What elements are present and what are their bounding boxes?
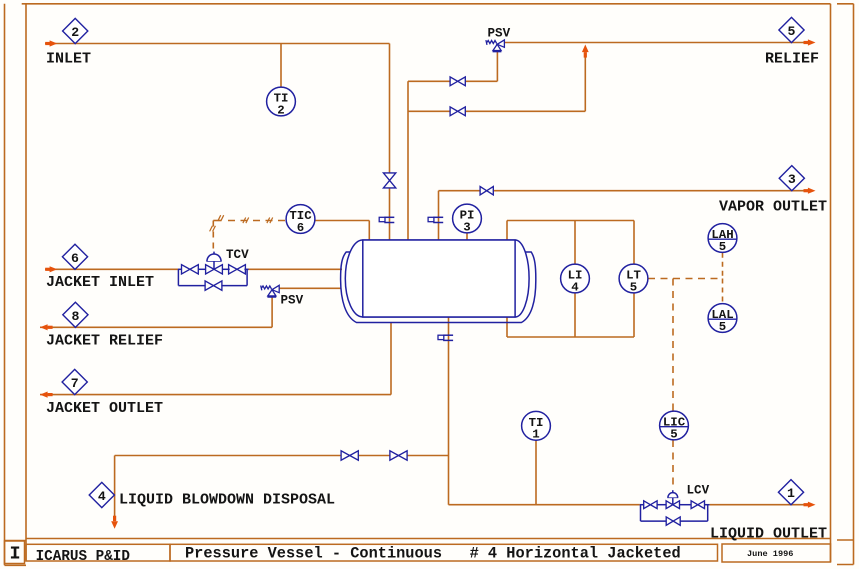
label JACKET RELIEF [46,333,163,350]
instrument LI-4 [561,264,590,294]
label RELIEF [765,51,819,68]
pipe JACKET OUTLET [40,323,391,395]
svg-text:3: 3 [788,172,796,187]
svg-text:JACKET RELIEF: JACKET RELIEF [46,333,163,350]
vessel V-1 horizontal jacketed [345,240,529,317]
svg-text:June 1996: June 1996 [747,549,793,559]
svg-text:7: 7 [71,376,79,391]
relief valve PSV jacket [261,285,280,297]
pipe JACKET INLET [45,268,342,270]
control valve LCV [666,490,679,508]
valve station TCV piping [178,269,249,285]
vessel jacket shell [341,252,536,323]
signal LT-5 to LIC-5 [648,279,723,412]
svg-text:3: 3 [463,220,470,234]
svg-text:5: 5 [719,240,726,254]
pipe INLET header [45,44,390,241]
wire TIC-6 process tap [315,221,369,241]
instrument LAH-5 [708,224,737,254]
nozzle N2 vapor [428,217,443,222]
svg-text:5: 5 [670,427,677,441]
svg-text:5: 5 [788,24,796,39]
svg-text:ICARUS P&ID: ICARUS P&ID [36,549,131,565]
valve LCV upstream block [644,501,657,509]
valve vapor outlet block [480,187,493,195]
node stream 5 [779,17,804,42]
relief valve PSV top [486,40,505,52]
svg-text:INLET: INLET [46,51,91,68]
instrument LT-5 [619,264,648,294]
label LIQUID BLOWDOWN DISPOSAL [119,492,335,509]
instrument TIC-6 [286,205,315,235]
svg-text:6: 6 [297,221,304,235]
pipe LIQUID BLOWDOWN [115,456,449,522]
svg-text:JACKET INLET: JACKET INLET [46,274,154,291]
junction relief tie-in arrow [582,45,589,58]
instrument TI-2 [267,87,296,117]
signal LAH-5 stub [722,253,724,279]
pipe LIQUID OUTLET [449,504,806,506]
valve LCV bypass [666,517,680,525]
valve relief lower block [450,107,465,116]
wire PI-3 tap [466,233,468,241]
node stream 2 [63,18,88,43]
wire LI-4 taps [574,221,576,338]
pipe jacket PSV outlet [279,287,341,289]
label LIQUID OUTLET [710,526,827,543]
valve TCV upstream block [182,265,199,274]
valve LCV downstream block [691,501,704,509]
svg-text:4: 4 [98,489,106,504]
svg-text:TCV: TCV [226,248,249,262]
arrow inlet [45,40,57,46]
pipe vessel bottom outlet [448,317,450,505]
pipe relief branch lower [408,55,585,111]
arrow jacket relief [40,324,53,330]
svg-text:PSV: PSV [281,294,304,308]
pipe RELIEF header [505,42,808,44]
node stream 3 [779,166,804,191]
svg-text:2: 2 [71,25,79,40]
instrument LAL-5 [708,304,737,334]
valve TCV bypass [205,281,222,290]
wire TI-1 tap [535,440,537,505]
instrument TI-1 [522,411,551,441]
valve station LCV piping [640,505,710,521]
label PSV jacket [281,294,304,308]
svg-text:I: I [10,543,21,564]
label TCV [226,248,249,262]
wire TI-2 tap [280,44,282,88]
svg-text:1: 1 [532,428,539,442]
control valve TCV [206,252,223,274]
svg-text:8: 8 [71,309,79,324]
label INLET [46,51,91,68]
arrow blowdown [111,516,118,529]
svg-text:LIQUID BLOWDOWN DISPOSAL: LIQUID BLOWDOWN DISPOSAL [119,492,335,509]
valve vertical block valve on inlet [383,173,395,188]
label PSV top [488,27,511,41]
pipe level bridle loop [507,221,634,338]
valve blowdown block 2 [390,451,407,460]
svg-text:5: 5 [719,320,726,334]
instrument LIC-5 [660,411,689,441]
svg-text:LCV: LCV [687,484,710,498]
pipe vessel vapor riser [407,81,409,240]
svg-text:4: 4 [571,280,579,294]
valve TCV downstream block [229,265,246,274]
signal LIC-5 to LCV [672,440,674,488]
svg-text:PSV: PSV [488,27,511,41]
pipe relief branch upper [408,51,497,81]
nozzle N1 inlet [379,217,394,222]
arrow jacket inlet [45,266,57,272]
signal LAL-5 stub [722,279,724,304]
svg-text:Pressure Vessel - Continuous: Pressure Vessel - Continuous # 4 Horizon… [185,545,681,563]
pipe JACKET RELIEF [40,297,272,328]
label VAPOR OUTLET [719,199,827,216]
valve blowdown block 1 [341,451,358,460]
node stream 1 [778,480,803,505]
svg-text:2: 2 [277,103,284,117]
label JACKET INLET [46,274,154,291]
pipe VAPOR OUTLET [439,191,806,240]
node stream 4 [89,482,114,507]
nozzle N3 bottom [438,335,453,340]
svg-text:5: 5 [630,280,637,294]
label JACKET OUTLET [46,400,163,417]
arrow vapor out [804,188,816,194]
arrow jacket outlet [40,392,53,398]
label LCV [687,484,710,498]
instrument PI-3 [453,204,482,234]
svg-text:6: 6 [71,251,79,266]
node stream 6 [62,244,87,269]
valve relief upper block [450,77,465,86]
signal TIC-6 to TCV [210,215,285,252]
svg-text:VAPOR OUTLET: VAPOR OUTLET [719,199,827,216]
svg-text:RELIEF: RELIEF [765,51,819,68]
node stream 8 [63,302,88,327]
title block [5,541,831,565]
node stream 7 [62,369,87,394]
arrow liquid outlet [804,502,816,508]
svg-text:LIQUID OUTLET: LIQUID OUTLET [710,526,827,543]
svg-text:JACKET OUTLET: JACKET OUTLET [46,400,163,417]
arrow relief out [804,39,816,45]
svg-text:1: 1 [787,486,795,501]
